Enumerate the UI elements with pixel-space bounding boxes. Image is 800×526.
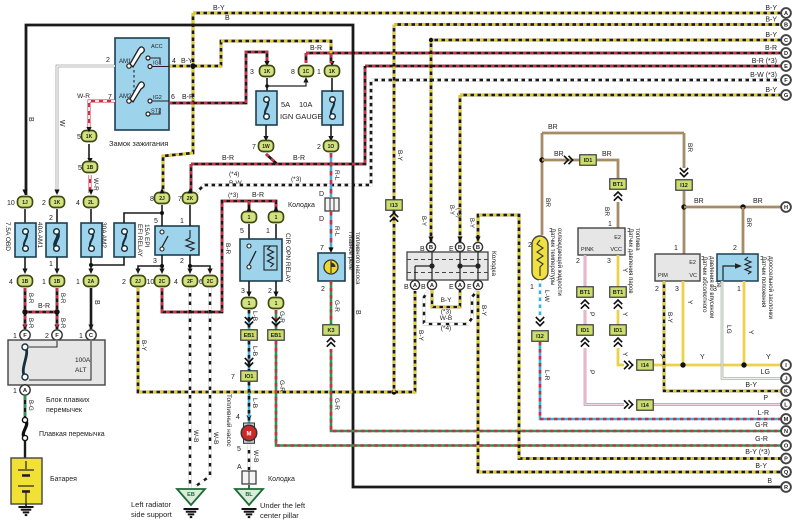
fuse 30A AM2 [81, 223, 102, 257]
svg-text:AM2: AM2 [119, 94, 132, 100]
connector circle A3 [455, 280, 464, 289]
svg-text:1: 1 [49, 261, 53, 268]
svg-text:G-R: G-R [278, 380, 285, 392]
wire G-R main relay to K3 [330, 281, 333, 324]
splice EB1 right [268, 330, 285, 341]
connector 2K top [183, 193, 198, 204]
wire B-Y line A [193, 12, 786, 15]
svg-text:N: N [784, 429, 788, 435]
svg-text:G-R: G-R [755, 436, 768, 443]
svg-text:B-Y: B-Y [765, 17, 777, 24]
svg-text:дроссельной заслонки: дроссельной заслонки [767, 256, 774, 319]
svg-text:3: 3 [250, 69, 254, 76]
svg-text:Блок плавких: Блок плавких [46, 397, 90, 404]
connector 2C second [203, 276, 218, 287]
connector 1K fuse5A [260, 66, 275, 77]
wire B-R 2C staple [162, 201, 276, 312]
svg-text:L-B: L-B [251, 311, 258, 321]
svg-text:L-W: L-W [543, 290, 550, 303]
svg-text:2: 2 [321, 286, 325, 293]
wire 10A to 1O [330, 125, 332, 139]
wire L-B IO1 to pump [248, 382, 251, 424]
svg-text:B-Y: B-Y [666, 312, 673, 324]
wire Y BT1 to ID1 [617, 310, 620, 325]
terminal J [781, 374, 791, 384]
svg-text:K3: K3 [327, 328, 334, 334]
arrowheads F F C A circles [22, 325, 93, 386]
connector C [86, 330, 96, 340]
wire CIR pin3 to oval [248, 281, 250, 296]
svg-text:IG2: IG2 [153, 95, 162, 101]
ground battery [19, 507, 34, 515]
MAP sensor box [655, 254, 700, 281]
arrowhead main relay pin7 [328, 248, 333, 254]
battery symbol [18, 461, 34, 504]
svg-text:топливного насоса: топливного насоса [354, 232, 360, 285]
connector 1K col [50, 197, 65, 208]
svg-text:2: 2 [122, 279, 126, 286]
svg-text:I12: I12 [536, 334, 544, 340]
splice ID1 top [580, 155, 597, 166]
splice I12 mid [532, 331, 549, 342]
connector Kolodka pump [242, 471, 256, 484]
wire L-B oval to EB1 [248, 310, 251, 330]
svg-text:1B: 1B [87, 165, 94, 171]
svg-text:1: 1 [13, 333, 17, 340]
svg-text:7: 7 [231, 374, 235, 381]
svg-text:3: 3 [241, 288, 245, 295]
svg-text:1O: 1O [328, 144, 335, 150]
svg-text:5: 5 [237, 446, 241, 453]
wire BR to throttle pin2 [742, 207, 745, 254]
splice chevrons I12 mid [536, 317, 544, 326]
wire relay pin3 to 2J 2C [138, 255, 164, 272]
ground triangle BL [235, 489, 263, 505]
svg-text:ALT: ALT [75, 367, 86, 374]
arrowheads CIR ovals [246, 206, 278, 421]
svg-text:1W: 1W [262, 144, 270, 150]
svg-text:2A: 2A [88, 279, 95, 285]
svg-text:W-B: W-B [212, 432, 219, 445]
svg-text:1: 1 [530, 284, 534, 291]
terminal C [781, 35, 791, 45]
wire BR ID1 to BT1 [597, 160, 618, 179]
wire B-W line F [371, 79, 786, 82]
svg-text:B-Y: B-Y [441, 297, 453, 304]
wire Y VC to I-line [682, 281, 685, 365]
wire W-B pump to connector [248, 445, 251, 470]
svg-text:1: 1 [674, 245, 678, 252]
svg-text:2: 2 [268, 288, 272, 295]
svg-text:BL: BL [245, 492, 253, 498]
wire W-R AM2 to 1K [89, 101, 115, 128]
svg-text:K: K [784, 389, 788, 395]
connector 2J bottom [131, 276, 146, 287]
svg-text:B: B [354, 310, 361, 315]
svg-text:R-L: R-L [333, 226, 340, 237]
svg-text:F: F [55, 333, 59, 339]
svg-text:L-R: L-R [758, 410, 769, 417]
wire CIR pin2 to oval [275, 281, 277, 296]
connector circle A2 [427, 280, 436, 289]
svg-text:I14: I14 [641, 363, 650, 369]
svg-text:B-Y: B-Y [765, 32, 777, 39]
svg-text:B: B [784, 23, 788, 29]
svg-text:30A AM2: 30A AM2 [100, 222, 107, 248]
wire oval to CIR box right [275, 224, 277, 239]
svg-text:1K: 1K [264, 69, 271, 75]
svg-text:5: 5 [240, 228, 244, 235]
svg-text:(*3): (*3) [291, 176, 301, 183]
svg-text:охлаждающей жидкости: охлаждающей жидкости [556, 228, 563, 296]
svg-text:E: E [449, 246, 454, 253]
svg-text:Датчик абсолютного: Датчик абсолютного [701, 256, 707, 313]
svg-text:P: P [588, 312, 595, 316]
svg-text:Колодка: Колодка [288, 202, 315, 209]
connector circle A1 [410, 280, 419, 289]
wire BR I12 to PIM E2 [683, 191, 686, 254]
terminal K [781, 386, 791, 396]
svg-text:B-R: B-R [293, 155, 305, 162]
wire B-Y IG1 stub [169, 41, 331, 66]
wire B-R 1W bus [191, 66, 365, 164]
svg-text:D: D [319, 191, 324, 198]
svg-text:B-W (*3): B-W (*3) [750, 72, 777, 79]
wire BR bus top [542, 132, 684, 135]
splice chevrons IO1 [245, 358, 253, 367]
connector Kolodka D [325, 198, 339, 211]
connector 1J [18, 197, 33, 208]
wire B-W alt line [197, 80, 371, 192]
ground BL [242, 509, 257, 517]
svg-text:F: F [784, 78, 788, 84]
svg-text:VC: VC [689, 273, 697, 279]
splice chevrons I12 right [680, 168, 688, 177]
junction I13 wire [391, 389, 396, 394]
svg-text:Left radiator: Left radiator [131, 500, 172, 509]
wire B-Y line B [394, 23, 786, 26]
svg-text:8: 8 [291, 69, 295, 76]
svg-text:B-R: B-R [252, 192, 264, 199]
svg-text:G-R: G-R [333, 398, 340, 410]
wire G-R oval to EB1 right [275, 310, 278, 330]
svg-text:BR: BR [603, 207, 610, 216]
svg-text:E: E [784, 64, 788, 70]
svg-text:B-Y: B-Y [468, 218, 474, 228]
svg-text:H: H [784, 205, 788, 211]
svg-text:Q: Q [784, 470, 789, 476]
wire B-R stub to pin5 oval [248, 201, 251, 210]
svg-text:B-R: B-R [182, 94, 194, 101]
svg-text:2C: 2C [207, 279, 214, 285]
svg-text:L-R: L-R [543, 370, 550, 381]
connector 2A [84, 276, 99, 287]
connector 1K fuse10A [325, 66, 340, 77]
fusible link battery [22, 417, 27, 440]
svg-text:O: O [784, 444, 789, 450]
svg-text:2F: 2F [187, 279, 193, 285]
splice IO1 [241, 371, 258, 382]
svg-text:F: F [23, 333, 27, 339]
arrowheads row202 ovals [22, 188, 192, 195]
terminal I [781, 360, 791, 370]
label vapor sensor [627, 228, 640, 294]
svg-text:Y: Y [621, 352, 628, 357]
wire B 2A to C [90, 288, 93, 329]
wire B-Y PIM to K [664, 281, 786, 391]
label temp sensor [549, 228, 563, 296]
wire B-Y line G [460, 94, 786, 97]
terminal M [781, 414, 791, 424]
wire B-R line D [306, 52, 786, 55]
wire P vapor PINK to BT1 [584, 255, 587, 287]
svg-text:6: 6 [171, 94, 175, 101]
svg-text:L: L [784, 403, 788, 409]
svg-text:2: 2 [42, 200, 46, 207]
wire D-line 1C stub [305, 53, 308, 63]
wire BR to ID1 [542, 159, 580, 162]
splice K3 [323, 325, 340, 336]
svg-text:2: 2 [180, 258, 184, 265]
fuse 15A EFI [114, 223, 135, 257]
wire B-R 1W diagonal [266, 154, 277, 164]
svg-text:B-Y: B-Y [181, 58, 193, 65]
connector 1B left [18, 276, 33, 287]
wire R-L lower [330, 211, 333, 250]
svg-text:B-R (*3): B-R (*3) [752, 58, 777, 65]
svg-text:W-B: W-B [440, 315, 453, 322]
svg-text:VCC: VCC [610, 247, 622, 253]
svg-text:3: 3 [713, 286, 717, 293]
connector circle A4 [473, 280, 482, 289]
wire W AM1 to fuse 1K [57, 66, 115, 193]
svg-text:BR: BR [694, 198, 704, 205]
svg-text:BT1: BT1 [613, 290, 623, 296]
splice chevrons I13 [390, 213, 398, 222]
svg-text:5: 5 [78, 165, 82, 172]
svg-text:Топливный насос: Топливный насос [225, 394, 233, 447]
svg-text:5: 5 [154, 218, 158, 225]
wire B-Y conn E2 to P-line [478, 215, 786, 459]
label throttle sensor [760, 256, 774, 319]
svg-text:BR: BR [686, 143, 693, 152]
svg-text:B-Y: B-Y [765, 5, 777, 12]
svg-text:EFI RELAY: EFI RELAY [136, 224, 143, 257]
connector 2F [183, 276, 198, 287]
svg-text:10A: 10A [299, 100, 312, 109]
svg-text:B: B [225, 15, 230, 22]
alternator box [8, 340, 105, 385]
wire 1K to 10A fuse [331, 78, 333, 92]
splice BT1 yellow [610, 287, 627, 298]
svg-text:A: A [237, 464, 242, 471]
svg-text:2: 2 [317, 144, 321, 151]
junction 1B bridge right [54, 309, 59, 314]
splice ID1 pink [577, 325, 594, 336]
splice I14 yellow [637, 360, 654, 371]
svg-text:1B: 1B [54, 279, 61, 285]
svg-text:I14: I14 [641, 403, 650, 409]
svg-text:PINK: PINK [581, 247, 594, 253]
svg-text:B-Y: B-Y [745, 382, 757, 389]
terminal D [781, 48, 791, 58]
svg-text:7: 7 [320, 245, 324, 252]
svg-text:1K: 1K [329, 69, 336, 75]
wire B-Y conn A4 to Q-line [478, 291, 786, 472]
ground triangle EB [177, 489, 205, 505]
wire AM2 to 2A with EFI branch [89, 257, 124, 272]
svg-text:M: M [247, 432, 252, 438]
junction 1B bridge left [22, 309, 27, 314]
junction BR H [681, 204, 686, 209]
splice chevrons BT1 top [614, 192, 622, 201]
junction BR throttle [740, 204, 745, 209]
svg-text:EB1: EB1 [244, 333, 255, 339]
svg-text:10: 10 [7, 200, 15, 207]
svg-text:1: 1 [248, 215, 251, 221]
svg-text:CIR OPN RELAY: CIR OPN RELAY [284, 233, 291, 283]
svg-text:B: B [476, 245, 480, 251]
svg-text:B-Y: B-Y [213, 5, 225, 12]
wire B-R 1K(10A) stub [330, 54, 333, 63]
svg-text:Датчик давления паров: Датчик давления паров [627, 228, 633, 294]
connector 1O [324, 141, 339, 152]
svg-text:1: 1 [275, 301, 278, 307]
svg-text:Y: Y [747, 330, 754, 335]
wire R-L upper [330, 153, 333, 197]
main relay timer symbol [324, 260, 338, 274]
wire B-R IG2 staple [169, 52, 267, 103]
svg-text:2C: 2C [159, 279, 166, 285]
svg-text:BR: BR [602, 151, 612, 158]
thin wire 5A top to 1C [265, 79, 306, 88]
svg-text:B-Y: B-Y [420, 216, 426, 226]
connector circle E top1 [455, 242, 464, 251]
connector 1B mid2 [50, 276, 65, 287]
svg-text:side support: side support [131, 510, 173, 519]
connector 1C [299, 66, 314, 77]
svg-text:2K: 2K [187, 196, 194, 202]
svg-text:ACC: ACC [151, 44, 163, 50]
connector circle B top [426, 242, 435, 251]
svg-text:ID1: ID1 [614, 328, 623, 334]
wire 5A to 1W [265, 125, 267, 139]
connector 2J top [155, 193, 170, 204]
splice I13 [386, 200, 403, 211]
svg-text:Замок зажигания: Замок зажигания [109, 139, 168, 148]
wire oval to CIR box left [248, 224, 250, 239]
svg-text:AM1: AM1 [119, 59, 132, 65]
svg-text:C: C [784, 38, 788, 44]
splice chevrons ID1 pink [581, 338, 589, 347]
wire L-R I12 to M-line [540, 342, 786, 419]
svg-text:G-R: G-R [333, 300, 340, 312]
wire P ID1 to L-line [585, 348, 624, 405]
svg-text:G: G [784, 93, 788, 99]
svg-text:B-Y: B-Y [140, 340, 147, 352]
svg-text:B-Y: B-Y [417, 330, 424, 342]
svg-text:(*4): (*4) [441, 325, 451, 332]
wire BR down to I12 [683, 133, 686, 168]
svg-text:M: M [784, 417, 789, 423]
svg-text:G-R: G-R [755, 422, 768, 429]
svg-text:1: 1 [79, 333, 83, 340]
vapor sensor box [578, 228, 625, 255]
svg-text:Главное реле: Главное реле [347, 232, 353, 271]
fuel pump M [241, 423, 257, 443]
splice chevrons EB1 right [272, 317, 280, 326]
wire 2K to relay pin1 [189, 205, 191, 226]
ground EB [184, 509, 199, 517]
svg-text:100A: 100A [75, 357, 91, 364]
svg-text:B: B [429, 245, 433, 251]
svg-text:топлива: топлива [634, 228, 640, 251]
svg-text:B: B [420, 246, 425, 253]
wire 1K to 5A fuse [266, 78, 268, 92]
connector 1B mid [83, 162, 98, 173]
wire G-R K3 to N-line [331, 349, 786, 431]
svg-text:Колодка: Колодка [490, 251, 497, 276]
battery box [11, 458, 42, 504]
splice chevrons BT1 pink [581, 300, 589, 309]
svg-text:7.5A OBD: 7.5A OBD [4, 222, 11, 251]
svg-text:B-R: B-R [224, 243, 231, 255]
wire G-R to O-line [276, 341, 786, 446]
terminal R [781, 482, 791, 492]
wire B-Y 2J to horizontal K-row [138, 288, 415, 392]
svg-text:BR: BR [544, 198, 551, 207]
terminal H [781, 202, 791, 212]
svg-text:B: B [458, 245, 462, 251]
svg-text:B-R: B-R [59, 318, 65, 329]
svg-text:4: 4 [172, 58, 176, 65]
alternator fuse symbol [22, 344, 28, 380]
connector 1 cir right [269, 212, 284, 223]
splice ID1 yellow [610, 325, 627, 336]
svg-text:1: 1 [42, 279, 46, 286]
connector 2C bottom [155, 276, 170, 287]
wire connector to BL [248, 485, 250, 489]
svg-text:1: 1 [248, 301, 251, 307]
svg-text:ID1: ID1 [581, 328, 590, 334]
wire B-R line E [365, 65, 786, 68]
junction IG1/A-line [190, 63, 195, 68]
svg-text:перемычек: перемычек [46, 407, 83, 414]
svg-text:Y: Y [766, 354, 771, 361]
splice chevrons I14 yellow [624, 361, 633, 369]
svg-text:B-G: B-G [27, 400, 33, 411]
svg-text:B-R: B-R [27, 293, 33, 304]
svg-text:I13: I13 [390, 203, 398, 209]
svg-text:R: R [784, 485, 788, 491]
splice chevrons ID1 [564, 156, 573, 164]
svg-text:4: 4 [9, 279, 13, 286]
svg-text:ST2: ST2 [151, 109, 161, 115]
svg-text:E2: E2 [689, 260, 696, 266]
svg-text:EB1: EB1 [271, 333, 282, 339]
svg-text:Y: Y [621, 312, 628, 317]
svg-text:BT1: BT1 [580, 290, 590, 296]
wire 1K to AM1 fuse [56, 209, 58, 224]
svg-text:40A AM1: 40A AM1 [36, 222, 43, 248]
svg-text:B-R: B-R [59, 293, 65, 304]
svg-text:IG1: IG1 [153, 61, 162, 67]
svg-text:P: P [588, 370, 595, 374]
svg-text:D: D [784, 51, 788, 57]
svg-text:BT1: BT1 [613, 182, 623, 188]
svg-text:B-R: B-R [27, 318, 33, 329]
splice chevrons EB1 left [245, 317, 253, 326]
